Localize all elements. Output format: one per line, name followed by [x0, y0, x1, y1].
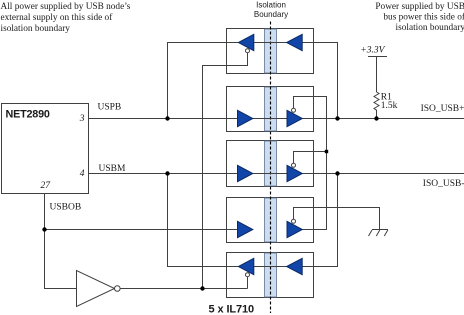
svg-text:+3.3V: +3.3V [360, 46, 385, 56]
buffer A1 in U2 (left, point left, bubble) [238, 34, 253, 52]
buffer A2 in U2 (right, point left) [287, 34, 303, 50]
wire inverter output [120, 288, 248, 290]
wire USPB net [89, 118, 464, 120]
label ISO_USB+ [421, 104, 464, 114]
wire row5 [168, 174, 338, 267]
label USBOB [50, 203, 82, 213]
node enable chain junction [325, 150, 328, 153]
isolation boundary dashed line [270, 22, 272, 314]
buffer E1 in U6 (left, point left, bubble) [238, 258, 253, 276]
node ISO_USB+ junction [335, 116, 339, 120]
note right text [375, 2, 464, 33]
wire row1 [168, 43, 338, 119]
pin 4 [80, 169, 85, 179]
svg-text:4: 4 [80, 169, 85, 179]
wire U5 enable to ground [294, 208, 380, 230]
node R1 junction [374, 116, 378, 120]
svg-text:USPB: USPB [98, 103, 122, 113]
wire USBOB to U5 [45, 229, 238, 231]
svg-text:3: 3 [79, 114, 85, 124]
wire inverter enable bus [203, 53, 248, 289]
node USBOB junction [42, 227, 46, 231]
isolator box U6 [227, 253, 314, 298]
svg-text:ISO_USB-: ISO_USB- [423, 179, 464, 189]
resistor R1 [374, 92, 398, 119]
note left text [1, 2, 131, 34]
pin 27 [41, 181, 52, 191]
buffer D1 in U5 (left, point right) [238, 221, 253, 237]
wire U6 enable riser [247, 277, 249, 289]
isolator box U3 [227, 87, 314, 132]
svg-text:5 x IL710: 5 x IL710 [209, 304, 255, 315]
isolator box U4 [227, 141, 314, 187]
svg-text:external supply on this side o: external supply on this side of [1, 12, 114, 23]
+3.3V power symbol [360, 46, 387, 93]
buffer E2 in U6 (right, point left) [287, 258, 303, 274]
svg-text:USBM: USBM [99, 164, 126, 174]
svg-text:Isolation: Isolation [256, 1, 286, 10]
node USBM junction left [165, 171, 169, 175]
svg-text:USBOB: USBOB [50, 203, 82, 213]
buffer D2 in U5 (right, point right, bubble) [287, 219, 302, 237]
svg-text:1.5k: 1.5k [381, 101, 398, 111]
svg-text:isolation boundary: isolation boundary [396, 23, 464, 33]
U1 NET2890 [2, 104, 89, 194]
label 5 x IL710 [209, 304, 255, 315]
label USPB [98, 103, 122, 113]
svg-text:Boundary: Boundary [254, 10, 288, 19]
buffer B2 in U3 (right, point right, bubble) [287, 108, 302, 126]
label ISO_USB- [423, 179, 464, 189]
buffer C2 in U4 (right, point right, bubble) [287, 163, 302, 181]
buffer B1 in U3 (left, point right) [238, 110, 253, 126]
isolation boundary label [254, 1, 288, 19]
node USPB junction left [165, 116, 169, 120]
svg-text:Power supplied by USB: Power supplied by USB [375, 2, 464, 12]
label USBM [99, 164, 126, 174]
isolator box U2 [227, 29, 314, 74]
svg-text:27: 27 [41, 181, 52, 191]
inverter G1 [77, 271, 121, 307]
wire U5 output loop [294, 97, 327, 230]
wire USBOB net [45, 194, 77, 289]
svg-text:isolation boundary: isolation boundary [1, 24, 71, 34]
node inverter output junction [200, 286, 204, 290]
ground [369, 230, 389, 237]
buffer C1 in U4 (left, point right) [238, 165, 253, 181]
svg-text:NET2890: NET2890 [6, 109, 50, 121]
svg-text:bus power this side of: bus power this side of [383, 12, 464, 23]
wire USBM net [89, 173, 464, 175]
wire U4 enable [294, 152, 327, 164]
pin 3 [79, 114, 85, 124]
svg-text:All power supplied by USB node: All power supplied by USB node’s [1, 2, 131, 12]
svg-text:ISO_USB+: ISO_USB+ [421, 104, 464, 114]
isolator box U5 [227, 198, 314, 243]
node ISO_USB- junction [335, 171, 339, 175]
